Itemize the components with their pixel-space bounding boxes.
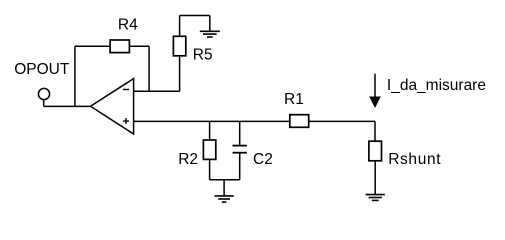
current arrow I_da_misurare: [369, 74, 381, 108]
wire output to op-amp: [44, 105, 91, 107]
wire Rshunt to ground: [374, 161, 376, 195]
wire to top ground: [180, 15, 210, 17]
resistor R5: [173, 36, 185, 56]
wire R2 bottom leg: [209, 159, 211, 179]
wire feedback top right: [129, 45, 149, 47]
svg-text:Rshunt: Rshunt: [388, 151, 441, 168]
wire feedback right leg: [148, 46, 150, 92]
wire node down to Rshunt: [374, 121, 376, 141]
svg-text:R4: R4: [118, 16, 138, 33]
resistor Rshunt: [369, 141, 382, 161]
wire C2 bottom leg: [239, 154, 241, 180]
wire R5 top leg: [179, 16, 181, 37]
capacitor C2: [233, 146, 247, 153]
wire feedback top left: [75, 45, 110, 47]
ground bottom-middle: [215, 180, 234, 202]
wire R5 bottom leg: [179, 56, 181, 91]
op-amp U1: [91, 79, 134, 134]
wire feedback left leg: [74, 46, 76, 106]
wire R1 to node: [309, 120, 375, 122]
wire non-inverting input: [134, 120, 290, 122]
wire inverting input: [134, 90, 180, 92]
wire bottom rail: [210, 179, 240, 181]
resistor R1: [290, 115, 309, 128]
svg-text:R2: R2: [178, 151, 198, 168]
pin minus symbol: [123, 89, 129, 91]
wire C2 top leg: [239, 121, 241, 144]
svg-text:R1: R1: [284, 91, 304, 108]
svg-text:OPOUT: OPOUT: [14, 61, 70, 78]
resistor R4: [110, 40, 129, 53]
svg-text:I_da_misurare: I_da_misurare: [387, 77, 486, 94]
wire OPOUT stem: [43, 99, 45, 106]
svg-text:R5: R5: [193, 46, 213, 63]
pin plus symbol: [123, 118, 129, 124]
resistor R2: [203, 140, 215, 159]
ground top-right: [200, 16, 220, 38]
wire R2 top leg: [209, 121, 211, 140]
terminal OPOUT: [38, 88, 49, 99]
svg-text:C2: C2: [253, 151, 273, 168]
ground bottom-right: [366, 195, 385, 201]
